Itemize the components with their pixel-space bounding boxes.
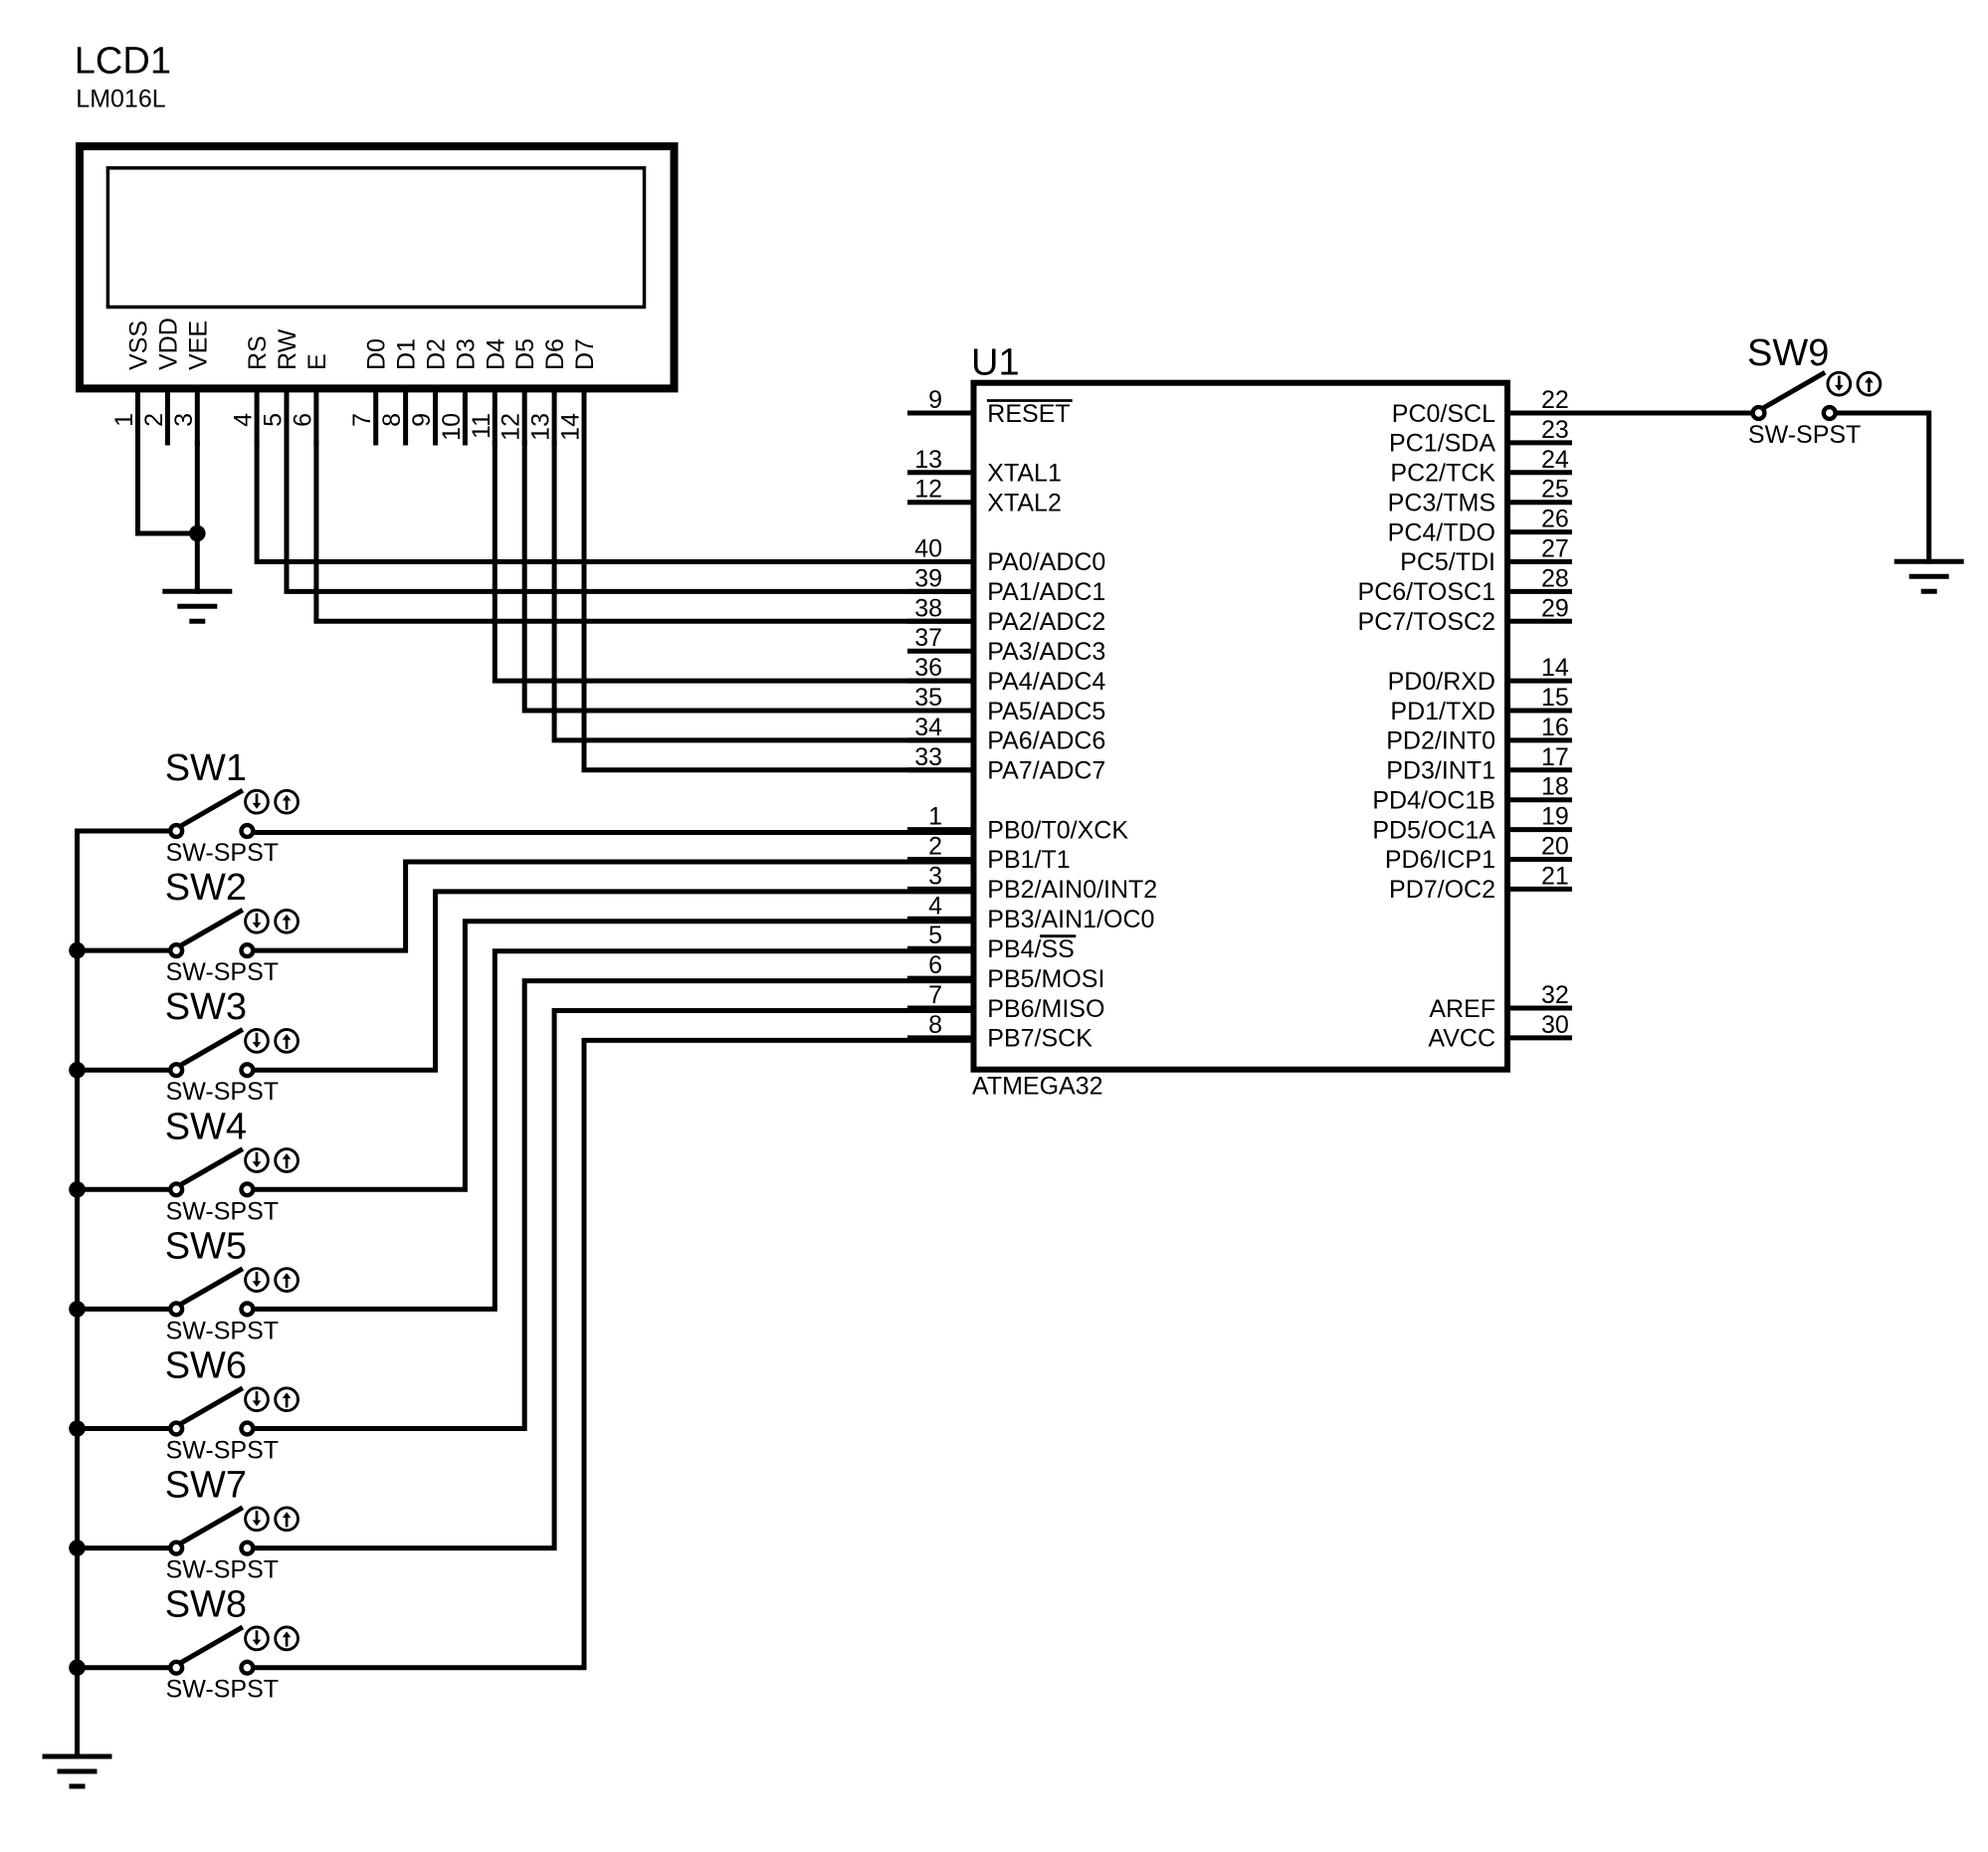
wire VSS to ground junction bbox=[138, 443, 198, 533]
svg-text:PB1/T1: PB1/T1 bbox=[987, 846, 1070, 874]
svg-text:13: 13 bbox=[527, 413, 555, 441]
svg-text:SW4: SW4 bbox=[165, 1106, 247, 1147]
LCD1 pin 2 (VDD) bbox=[140, 317, 183, 443]
svg-text:PB2/AIN0/INT2: PB2/AIN0/INT2 bbox=[987, 876, 1157, 904]
svg-text:VSS: VSS bbox=[125, 320, 153, 370]
svg-text:PB4/SS: PB4/SS bbox=[987, 935, 1075, 963]
svg-text:13: 13 bbox=[914, 446, 942, 474]
svg-text:D2: D2 bbox=[423, 338, 451, 370]
svg-text:SW-SPST: SW-SPST bbox=[166, 1556, 279, 1584]
svg-text:26: 26 bbox=[1541, 506, 1569, 533]
wire SW4 to PB3 bbox=[255, 922, 973, 1190]
svg-text:16: 16 bbox=[1541, 714, 1569, 741]
svg-text:12: 12 bbox=[497, 413, 525, 441]
LCD1 pin 10 (D3) bbox=[438, 338, 481, 443]
wire SW9 to ground bbox=[1838, 413, 1929, 561]
wire SW5 to PB4 bbox=[255, 951, 973, 1310]
junction bus node SW2 bbox=[69, 942, 86, 959]
svg-text:LCD1: LCD1 bbox=[75, 41, 171, 83]
svg-text:30: 30 bbox=[1541, 1011, 1569, 1039]
U1 pin 37 (PA3/ADC3) bbox=[910, 624, 1106, 666]
svg-text:7: 7 bbox=[348, 413, 376, 427]
LCD1 pin 8 (D1) bbox=[378, 338, 421, 443]
U1 pin 3 (PB2/AIN0/INT2) bbox=[910, 862, 1158, 904]
U1 pin 9 (RESET) bbox=[910, 386, 1072, 428]
svg-text:PD7/OC2: PD7/OC2 bbox=[1389, 876, 1495, 904]
svg-text:PA7/ADC7: PA7/ADC7 bbox=[987, 757, 1105, 785]
svg-text:XTAL2: XTAL2 bbox=[987, 490, 1062, 517]
svg-text:PA6/ADC6: PA6/ADC6 bbox=[987, 727, 1105, 755]
LCD1 pin 14 (D7) bbox=[557, 338, 600, 443]
svg-text:SW5: SW5 bbox=[165, 1225, 247, 1267]
svg-text:20: 20 bbox=[1541, 833, 1569, 861]
LCD1 pin 9 (D2) bbox=[408, 338, 451, 443]
switch SW4 (SW-SPST) bbox=[165, 1106, 298, 1225]
svg-text:1: 1 bbox=[110, 413, 138, 427]
svg-text:ATMEGA32: ATMEGA32 bbox=[972, 1073, 1103, 1101]
svg-text:7: 7 bbox=[928, 981, 942, 1009]
svg-text:RESET: RESET bbox=[987, 400, 1070, 428]
U1 pin 23 (PC1/SDA) bbox=[1389, 416, 1569, 458]
U1 pin 8 (PB7/SCK) bbox=[910, 1011, 1093, 1053]
svg-text:24: 24 bbox=[1541, 446, 1569, 474]
U1 pin 21 (PD7/OC2) bbox=[1389, 862, 1569, 904]
wire SW1 to PB0 bbox=[255, 830, 973, 835]
svg-text:PD6/ICP1: PD6/ICP1 bbox=[1385, 846, 1495, 874]
svg-text:14: 14 bbox=[557, 413, 585, 441]
svg-text:SW-SPST: SW-SPST bbox=[166, 958, 279, 986]
wire E to PA2 bbox=[316, 443, 974, 621]
svg-text:SW-SPST: SW-SPST bbox=[166, 1078, 279, 1106]
svg-text:14: 14 bbox=[1541, 654, 1569, 682]
wire bus to SW8 bbox=[78, 1665, 169, 1670]
wire bus to SW3 bbox=[78, 1068, 169, 1073]
LCD1 pin 12 (D5) bbox=[497, 338, 540, 443]
svg-text:PD3/INT1: PD3/INT1 bbox=[1386, 757, 1495, 785]
switch SW5 (SW-SPST) bbox=[165, 1225, 298, 1344]
svg-text:D5: D5 bbox=[511, 338, 539, 370]
svg-text:PA1/ADC1: PA1/ADC1 bbox=[987, 578, 1105, 606]
U1 pin 13 (XTAL1) bbox=[910, 446, 1062, 488]
switch SW9 (SW-SPST) bbox=[1747, 332, 1881, 449]
U1 pin 27 (PC5/TDI) bbox=[1400, 535, 1569, 577]
svg-text:36: 36 bbox=[914, 654, 942, 682]
LCD1 pin 7 (D0) bbox=[348, 338, 391, 443]
svg-text:SW1: SW1 bbox=[165, 747, 247, 789]
junction bus node SW5 bbox=[69, 1301, 86, 1318]
svg-text:SW7: SW7 bbox=[165, 1465, 247, 1507]
junction bus node SW8 bbox=[69, 1659, 86, 1676]
svg-text:SW-SPST: SW-SPST bbox=[166, 839, 279, 867]
ground SW9 GND bbox=[1896, 561, 1961, 591]
svg-text:D6: D6 bbox=[541, 338, 569, 370]
svg-text:12: 12 bbox=[914, 476, 942, 504]
svg-text:17: 17 bbox=[1541, 743, 1569, 771]
U1 pin 30 (AVCC) bbox=[1428, 1011, 1569, 1053]
svg-text:21: 21 bbox=[1541, 862, 1569, 890]
U1 pin 4 (PB3/AIN1/OC0) bbox=[910, 892, 1155, 933]
svg-text:40: 40 bbox=[914, 535, 942, 563]
wire D5 to PA5 bbox=[524, 443, 973, 711]
U1 pin 15 (PD1/TXD) bbox=[1390, 684, 1569, 725]
wire switch common bus (vertical) bbox=[75, 831, 80, 1756]
svg-text:9: 9 bbox=[928, 386, 942, 414]
junction bus node SW6 bbox=[69, 1420, 86, 1437]
U1 pin 1 (PB0/T0/XCK) bbox=[910, 803, 1129, 845]
U1 pin 39 (PA1/ADC1) bbox=[910, 564, 1106, 606]
svg-text:35: 35 bbox=[914, 684, 942, 712]
svg-text:10: 10 bbox=[438, 413, 466, 441]
wire D7 to PA7 bbox=[584, 443, 974, 770]
U1 pin 25 (PC3/TMS) bbox=[1388, 476, 1570, 517]
wire SW2 to PB1 bbox=[255, 862, 973, 950]
U1 pin 35 (PA5/ADC5) bbox=[910, 684, 1106, 725]
U1 pin 7 (PB6/MISO) bbox=[910, 981, 1105, 1023]
svg-text:33: 33 bbox=[914, 743, 942, 771]
svg-text:PC5/TDI: PC5/TDI bbox=[1400, 548, 1495, 576]
switch SW7 (SW-SPST) bbox=[165, 1465, 298, 1584]
LCD1 pin 5 (RW) bbox=[260, 328, 302, 443]
svg-text:RW: RW bbox=[274, 328, 301, 370]
svg-text:38: 38 bbox=[914, 594, 942, 622]
wire bus to SW2 bbox=[78, 948, 169, 953]
LCD1 pin 13 (D6) bbox=[527, 338, 570, 443]
svg-text:E: E bbox=[303, 353, 331, 370]
svg-text:D7: D7 bbox=[571, 338, 599, 370]
svg-text:15: 15 bbox=[1541, 684, 1569, 712]
U1 pin 36 (PA4/ADC4) bbox=[910, 654, 1106, 696]
svg-text:22: 22 bbox=[1541, 386, 1569, 414]
svg-text:PC4/TDO: PC4/TDO bbox=[1388, 518, 1495, 546]
U1 pin 16 (PD2/INT0) bbox=[1386, 714, 1569, 755]
wire VEE to ground bbox=[195, 443, 200, 591]
svg-text:SW6: SW6 bbox=[165, 1345, 247, 1387]
ground LCD supply GND bbox=[165, 591, 230, 621]
U1 pin 20 (PD6/ICP1) bbox=[1385, 833, 1570, 875]
svg-text:SW-SPST: SW-SPST bbox=[166, 1437, 279, 1465]
svg-text:PD0/RXD: PD0/RXD bbox=[1388, 668, 1495, 696]
wire bus to SW5 bbox=[78, 1307, 169, 1312]
svg-text:3: 3 bbox=[170, 413, 198, 427]
U1 pin 32 (AREF) bbox=[1429, 981, 1569, 1023]
U1 pin 26 (PC4/TDO) bbox=[1388, 506, 1570, 547]
svg-text:PC7/TOSC2: PC7/TOSC2 bbox=[1358, 608, 1495, 636]
U1 pin 24 (PC2/TCK) bbox=[1390, 446, 1569, 488]
junction bus node SW4 bbox=[69, 1181, 86, 1198]
U1 pin 6 (PB5/MOSI) bbox=[910, 951, 1105, 993]
switch SW1 (SW-SPST) bbox=[165, 747, 298, 867]
svg-text:39: 39 bbox=[914, 564, 942, 592]
wire PC0/SCL to SW9 bbox=[1570, 411, 1751, 416]
svg-text:PA5/ADC5: PA5/ADC5 bbox=[987, 698, 1105, 725]
svg-text:5: 5 bbox=[928, 922, 942, 949]
U1 pin 18 (PD4/OC1B) bbox=[1372, 773, 1569, 815]
switch SW3 (SW-SPST) bbox=[165, 986, 298, 1106]
svg-text:1: 1 bbox=[928, 803, 942, 831]
svg-text:4: 4 bbox=[928, 892, 942, 920]
LCD1 display window bbox=[107, 168, 644, 308]
U1 pin 38 (PA2/ADC2) bbox=[910, 594, 1106, 636]
LCD1 pin 11 (D4) bbox=[468, 338, 510, 443]
switch SW2 (SW-SPST) bbox=[165, 867, 298, 986]
svg-text:VDD: VDD bbox=[154, 317, 182, 370]
svg-text:PC1/SDA: PC1/SDA bbox=[1389, 430, 1495, 458]
svg-text:PD2/INT0: PD2/INT0 bbox=[1386, 727, 1495, 755]
svg-text:8: 8 bbox=[928, 1011, 942, 1039]
svg-text:8: 8 bbox=[378, 413, 406, 427]
junction VSS/VEE node bbox=[189, 525, 206, 542]
svg-text:PD1/TXD: PD1/TXD bbox=[1390, 698, 1495, 725]
wire SW3 to PB2 bbox=[255, 892, 973, 1070]
svg-text:PA2/ADC2: PA2/ADC2 bbox=[987, 608, 1105, 636]
svg-text:D0: D0 bbox=[363, 338, 391, 370]
svg-text:PB0/T0/XCK: PB0/T0/XCK bbox=[987, 816, 1128, 844]
svg-text:PC3/TMS: PC3/TMS bbox=[1388, 490, 1495, 517]
svg-text:SW8: SW8 bbox=[165, 1584, 247, 1626]
LCD1 pin 3 (VEE) bbox=[170, 320, 213, 443]
svg-text:23: 23 bbox=[1541, 416, 1569, 444]
junction bus node SW7 bbox=[69, 1540, 86, 1556]
svg-text:3: 3 bbox=[928, 862, 942, 890]
svg-text:PD5/OC1A: PD5/OC1A bbox=[1372, 816, 1495, 844]
svg-text:PA4/ADC4: PA4/ADC4 bbox=[987, 668, 1105, 696]
wire SW7 to PB6 bbox=[255, 1011, 973, 1548]
U1 pin 22 (PC0/SCL) bbox=[1392, 386, 1570, 428]
svg-text:27: 27 bbox=[1541, 535, 1569, 563]
LCD1 pin 1 (VSS) bbox=[110, 320, 153, 443]
LCD1 pin 4 (RS) bbox=[230, 335, 273, 443]
wire D6 to PA6 bbox=[554, 443, 973, 740]
U1 pin 14 (PD0/RXD) bbox=[1388, 654, 1570, 696]
svg-text:LM016L: LM016L bbox=[76, 86, 165, 113]
wire bus to SW6 bbox=[78, 1426, 169, 1431]
svg-text:XTAL1: XTAL1 bbox=[987, 460, 1062, 488]
svg-text:D3: D3 bbox=[452, 338, 480, 370]
op-amp U1 body (ATMEGA32 MCU) bbox=[974, 383, 1508, 1070]
U1 pin 34 (PA6/ADC6) bbox=[910, 714, 1106, 755]
svg-text:PC6/TOSC1: PC6/TOSC1 bbox=[1358, 578, 1495, 606]
U1 pin 33 (PA7/ADC7) bbox=[910, 743, 1106, 785]
svg-text:PC0/SCL: PC0/SCL bbox=[1392, 400, 1495, 428]
svg-text:AREF: AREF bbox=[1429, 995, 1495, 1023]
U1 pin 5 (PB4/SS) bbox=[910, 922, 1075, 963]
svg-text:PB3/AIN1/OC0: PB3/AIN1/OC0 bbox=[987, 906, 1154, 933]
wire bus to SW1 bbox=[78, 829, 169, 834]
svg-text:37: 37 bbox=[914, 624, 942, 652]
svg-text:PC2/TCK: PC2/TCK bbox=[1390, 460, 1495, 488]
svg-text:25: 25 bbox=[1541, 476, 1569, 504]
switch SW6 (SW-SPST) bbox=[165, 1345, 298, 1465]
svg-text:4: 4 bbox=[230, 413, 258, 427]
svg-text:D1: D1 bbox=[393, 338, 421, 370]
wire D4 to PA4 bbox=[495, 443, 973, 681]
LCD1 component body bbox=[80, 146, 675, 388]
wire RW to PA1 bbox=[287, 443, 974, 591]
U1 pin 28 (PC6/TOSC1) bbox=[1358, 564, 1570, 606]
U1 pin 19 (PD5/OC1A) bbox=[1372, 803, 1569, 845]
svg-text:PB7/SCK: PB7/SCK bbox=[987, 1025, 1093, 1053]
svg-text:5: 5 bbox=[260, 413, 288, 427]
svg-text:PB6/MISO: PB6/MISO bbox=[987, 995, 1104, 1023]
svg-text:18: 18 bbox=[1541, 773, 1569, 801]
svg-text:2: 2 bbox=[928, 833, 942, 861]
svg-text:SW-SPST: SW-SPST bbox=[166, 1197, 279, 1225]
svg-text:PA0/ADC0: PA0/ADC0 bbox=[987, 548, 1105, 576]
wire SW6 to PB5 bbox=[255, 981, 973, 1429]
svg-text:U1: U1 bbox=[971, 342, 1020, 384]
wire SW8 to PB7 bbox=[255, 1040, 973, 1667]
wire bus to SW7 bbox=[78, 1545, 169, 1550]
svg-text:PA3/ADC3: PA3/ADC3 bbox=[987, 638, 1105, 666]
svg-text:6: 6 bbox=[928, 951, 942, 979]
svg-text:AVCC: AVCC bbox=[1428, 1025, 1495, 1053]
svg-text:PD4/OC1B: PD4/OC1B bbox=[1372, 787, 1495, 815]
svg-text:D4: D4 bbox=[482, 338, 509, 370]
svg-text:29: 29 bbox=[1541, 594, 1569, 622]
svg-text:6: 6 bbox=[289, 413, 316, 427]
U1 pin 17 (PD3/INT1) bbox=[1386, 743, 1569, 785]
svg-text:VEE: VEE bbox=[184, 320, 212, 370]
svg-text:SW3: SW3 bbox=[165, 986, 247, 1028]
svg-text:9: 9 bbox=[408, 413, 436, 427]
svg-text:28: 28 bbox=[1541, 564, 1569, 592]
switch SW8 (SW-SPST) bbox=[165, 1584, 298, 1704]
junction bus node SW3 bbox=[69, 1062, 86, 1079]
svg-text:SW-SPST: SW-SPST bbox=[1748, 421, 1861, 449]
ground switch bus GND bbox=[45, 1756, 109, 1786]
svg-text:34: 34 bbox=[914, 714, 942, 741]
svg-text:RS: RS bbox=[244, 335, 272, 370]
U1 pin 2 (PB1/T1) bbox=[910, 833, 1071, 875]
U1 pin 12 (XTAL2) bbox=[910, 476, 1062, 517]
LCD1 pin 6 (E) bbox=[289, 353, 331, 443]
svg-text:11: 11 bbox=[468, 413, 496, 439]
U1 pin 40 (PA0/ADC0) bbox=[910, 535, 1106, 577]
svg-text:32: 32 bbox=[1541, 981, 1569, 1009]
svg-text:19: 19 bbox=[1541, 803, 1569, 831]
wire bus to SW4 bbox=[78, 1187, 169, 1192]
svg-text:SW-SPST: SW-SPST bbox=[166, 1676, 279, 1704]
wire RS to PA0 bbox=[257, 443, 973, 562]
svg-text:SW-SPST: SW-SPST bbox=[166, 1317, 279, 1344]
svg-text:PB5/MOSI: PB5/MOSI bbox=[987, 965, 1104, 993]
svg-text:SW2: SW2 bbox=[165, 867, 247, 909]
svg-text:SW9: SW9 bbox=[1747, 332, 1829, 374]
svg-text:2: 2 bbox=[140, 413, 168, 427]
U1 pin 29 (PC7/TOSC2) bbox=[1358, 594, 1570, 636]
